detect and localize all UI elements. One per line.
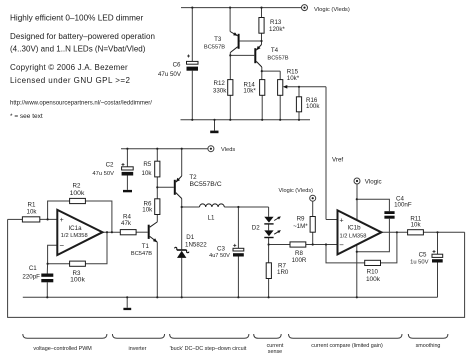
wire R2 right to output bbox=[86, 201, 112, 232]
junction C3 / ground rail bbox=[237, 296, 239, 298]
svg-text:Designed for battery–powered o: Designed for battery–powered operation bbox=[10, 32, 155, 41]
svg-text:−: − bbox=[339, 241, 344, 250]
svg-text:100k: 100k bbox=[70, 190, 85, 197]
resistor R3 bbox=[70, 261, 86, 283]
wire R12 bottom bbox=[229, 95, 231, 120]
node Vleds bbox=[208, 146, 235, 153]
brace current sense bbox=[254, 334, 282, 338]
diode D1 1N5822 schottky bbox=[175, 234, 208, 258]
wire T4 collector junction bbox=[261, 67, 263, 80]
wire IC1b V- pin to ground bbox=[356, 245, 358, 297]
wire C4 top link bbox=[357, 199, 390, 211]
svg-text:+: + bbox=[60, 217, 64, 224]
potentiometer R15 bbox=[278, 68, 300, 95]
svg-text:C1: C1 bbox=[29, 265, 37, 272]
brace smoothing bbox=[408, 334, 448, 338]
wire T2 collector to L1 node bbox=[181, 199, 183, 208]
junction R15 / upper ground rail bbox=[279, 119, 281, 121]
svg-text:47u 50V: 47u 50V bbox=[92, 171, 114, 177]
wire R4 to T1 base bbox=[136, 231, 148, 233]
wire R13 bottom / node T3 base / T4 emitter bbox=[261, 33, 263, 44]
op-amp IC1b bbox=[338, 210, 382, 254]
resistor R16 bbox=[296, 97, 320, 112]
junction feedback / minus input net bbox=[325, 243, 327, 245]
svg-text:smoothing: smoothing bbox=[416, 343, 441, 349]
svg-text:1u 50V: 1u 50V bbox=[410, 260, 429, 266]
svg-text:T4: T4 bbox=[271, 47, 279, 54]
wire C5 bottom / ground rail right end bbox=[437, 263, 439, 298]
junction R7 / ground rail bbox=[268, 296, 270, 298]
svg-text:sense: sense bbox=[268, 349, 282, 355]
svg-text:330k: 330k bbox=[213, 88, 227, 95]
junction T4 collector / R14 / R15 bbox=[261, 70, 263, 72]
capacitor C5 bbox=[410, 250, 443, 266]
wire top Vlogic rail bbox=[181, 7, 302, 9]
svg-text:Highly efficient 0–100% LED di: Highly efficient 0–100% LED dimmer bbox=[10, 13, 143, 22]
svg-text:100R: 100R bbox=[292, 257, 307, 264]
svg-text:T1: T1 bbox=[142, 243, 150, 250]
junction C1 / ground rail bbox=[46, 296, 48, 298]
wire upper ground rail bbox=[181, 119, 311, 121]
svg-text:100nF: 100nF bbox=[394, 201, 412, 208]
resistor R4 bbox=[120, 214, 136, 235]
wire sense node to R8 bbox=[269, 244, 290, 246]
node Vlogic (Vleds) mid bbox=[279, 188, 316, 201]
wire IC1a output to R4 bbox=[102, 231, 120, 233]
junction T3 emitter / Vlogic rail bbox=[229, 7, 231, 9]
wire C6 branch top bbox=[191, 8, 193, 62]
svg-text:10k*: 10k* bbox=[243, 87, 256, 94]
junction ground symbol / ground rail bbox=[126, 296, 128, 298]
resistor R2 bbox=[70, 183, 86, 204]
wire T2 emitter to Vleds rail bbox=[181, 149, 183, 176]
transistor T4 bbox=[230, 45, 288, 68]
wire D2 top branch bbox=[268, 207, 270, 217]
node Vlogic (Vleds) top bbox=[302, 5, 350, 13]
svg-text:BC557B/C: BC557B/C bbox=[190, 181, 222, 188]
svg-text:1/2 LM358: 1/2 LM358 bbox=[340, 233, 367, 239]
junction C2 / Vleds rail bbox=[126, 148, 128, 150]
junction T2 collector / D1 / L1 bbox=[181, 206, 183, 208]
wire D2 middle bbox=[268, 224, 270, 230]
svg-text:C6: C6 bbox=[173, 62, 181, 69]
resistor R10 bbox=[365, 260, 381, 283]
wire T1 collector to R6 bbox=[156, 215, 158, 222]
inductor L1 bbox=[200, 204, 225, 221]
junction R13 / Vlogic rail bbox=[260, 7, 262, 9]
wire R1 right to plus input bbox=[40, 218, 58, 220]
junction R3 / IC1a output bbox=[106, 231, 108, 233]
wire minus input to R3/C1 node bbox=[48, 245, 58, 263]
capacitor C2 bbox=[92, 162, 133, 178]
junction C4 / Vlogic pin wire bbox=[356, 198, 358, 200]
svg-text:C2: C2 bbox=[106, 162, 114, 169]
junction C4 / IC1b V- pin wire bbox=[356, 251, 358, 253]
ground bar below C2 bbox=[123, 190, 132, 192]
svg-text:100k: 100k bbox=[306, 103, 320, 110]
svg-text:D2: D2 bbox=[252, 225, 260, 232]
svg-text:(4..30V) and 1..N LEDs (N=Vbat: (4..30V) and 1..N LEDs (N=Vbat/Vled) bbox=[10, 45, 146, 54]
wire main ground rail bbox=[23, 296, 438, 298]
resistor R11 bbox=[408, 215, 424, 235]
op-amp IC1a bbox=[57, 210, 102, 255]
wire R2 branch from plus input bbox=[48, 201, 70, 219]
capacitor C1 bbox=[22, 265, 53, 283]
svg-text:BC557B: BC557B bbox=[267, 56, 288, 62]
wire Vref vertical bbox=[325, 87, 327, 220]
junction R5 / Vleds rail bbox=[156, 148, 158, 150]
wire C6 bottom to ground rail bbox=[191, 71, 193, 120]
svg-text:47k: 47k bbox=[121, 220, 132, 227]
wire R8 right to IC1b minus input bbox=[306, 244, 338, 246]
wire C2 bottom bbox=[126, 175, 128, 190]
resistor R13 bbox=[259, 18, 286, 34]
wire outer feedback loop R11 to R1 bbox=[8, 219, 465, 317]
wire R15 bottom bbox=[279, 95, 281, 120]
capacitor C6 bbox=[158, 55, 198, 79]
svg-text:R10: R10 bbox=[367, 269, 379, 276]
svg-text:current: current bbox=[267, 343, 284, 349]
junction R15 wiper / R16 bbox=[298, 86, 300, 88]
svg-text:R1: R1 bbox=[28, 201, 36, 208]
junction R2 / IC1a output bbox=[111, 231, 113, 233]
svg-text:Vlogic (Vleds): Vlogic (Vleds) bbox=[279, 188, 314, 194]
svg-text:Vleds: Vleds bbox=[221, 147, 235, 153]
svg-text:Vlogic: Vlogic bbox=[365, 178, 382, 185]
wire R3 right to output bbox=[86, 232, 108, 264]
resistor R1 bbox=[22, 201, 39, 222]
junction T3 base / R13 / T4 emitter bbox=[260, 40, 262, 42]
svg-text:T2: T2 bbox=[189, 174, 197, 181]
wire L1 left node bbox=[182, 206, 200, 208]
wire C5 top bbox=[437, 232, 439, 254]
svg-text:10k*: 10k* bbox=[287, 75, 300, 82]
svg-text:http://www.opensourcepartners.: http://www.opensourcepartners.nl/~costar… bbox=[10, 100, 152, 106]
svg-text:C5: C5 bbox=[419, 251, 427, 258]
svg-text:R5: R5 bbox=[143, 161, 151, 168]
junction C5 / R11 output bbox=[436, 231, 438, 233]
wire R16 bottom bbox=[298, 112, 300, 120]
svg-text:'buck' DC–DC step–down circuit: 'buck' DC–DC step–down circuit bbox=[170, 346, 247, 352]
wire C1 top bbox=[46, 264, 48, 274]
resistor R9 bbox=[293, 215, 315, 232]
wire D2 bottom to sense node bbox=[268, 238, 270, 245]
wire R7 bottom bbox=[268, 279, 270, 298]
svg-text:120k*: 120k* bbox=[269, 26, 285, 33]
junction R14 / upper ground rail bbox=[261, 119, 263, 121]
LED D2 (two series LEDs) bbox=[252, 216, 281, 238]
brace buck DC-DC step-down circuit bbox=[170, 334, 249, 338]
capacitor C4 bbox=[384, 195, 411, 218]
svg-text:Vref: Vref bbox=[332, 157, 343, 164]
junction R16 / upper ground rail bbox=[298, 119, 300, 121]
node Vlogic bbox=[354, 178, 382, 185]
svg-text:Vlogic (Vleds): Vlogic (Vleds) bbox=[314, 7, 350, 13]
svg-text:10k: 10k bbox=[411, 221, 422, 228]
svg-text:IC1a: IC1a bbox=[68, 225, 82, 232]
svg-text:10k: 10k bbox=[142, 207, 153, 214]
svg-text:4u7 50V: 4u7 50V bbox=[209, 253, 230, 259]
svg-text:D1: D1 bbox=[186, 234, 194, 241]
junction D2 / R7 / R8 sense node bbox=[268, 243, 270, 245]
svg-text:R12: R12 bbox=[214, 80, 226, 87]
resistor R12 bbox=[213, 80, 233, 96]
wire R11 right to outer loop bbox=[423, 231, 464, 233]
transistor T3 bbox=[204, 32, 262, 53]
svg-text:100k: 100k bbox=[366, 276, 381, 283]
wire R3 left bbox=[48, 263, 70, 265]
wire C3 top bbox=[237, 207, 239, 248]
junction T4 base / T3 collector bbox=[229, 54, 231, 56]
wire T3 collector to R12 bbox=[229, 53, 231, 80]
junction C3 / L1 output bbox=[237, 206, 239, 208]
brace inverter bbox=[112, 334, 164, 338]
svg-text:−: − bbox=[59, 241, 64, 250]
junction R12 / upper ground rail bbox=[229, 119, 231, 121]
wire Vleds rail bbox=[121, 148, 208, 150]
svg-text:~1M*: ~1M* bbox=[293, 223, 308, 230]
junction T2 emitter / Vleds rail bbox=[181, 148, 183, 150]
resistor R5 bbox=[142, 161, 160, 177]
title text block bbox=[10, 13, 155, 120]
wire feedback to R10 bbox=[326, 245, 365, 263]
brace current compare (limited gain) bbox=[289, 334, 403, 338]
wire C1 bottom bbox=[46, 282, 48, 297]
svg-text:C3: C3 bbox=[217, 246, 225, 253]
wire C2 top bbox=[126, 149, 128, 168]
wire C4 bottom to V- pin bbox=[357, 219, 390, 252]
junction R5 / R6 / T2 base bbox=[156, 186, 158, 188]
resistor R8 bbox=[290, 242, 307, 264]
svg-text:220pF: 220pF bbox=[22, 273, 40, 280]
junction C6 / upper ground rail bbox=[191, 119, 193, 121]
svg-text:R2: R2 bbox=[73, 183, 81, 190]
svg-text:L1: L1 bbox=[208, 214, 215, 221]
wire R14 bottom bbox=[261, 95, 263, 120]
svg-text:IC1b: IC1b bbox=[347, 225, 361, 232]
junction D1 / ground rail bbox=[181, 296, 183, 298]
svg-text:BC557B: BC557B bbox=[204, 45, 225, 51]
wire R5-R6-T2 base node bbox=[156, 177, 158, 199]
svg-text:T3: T3 bbox=[214, 36, 222, 43]
junction R9 / minus input net bbox=[312, 243, 314, 245]
svg-text:1R0: 1R0 bbox=[277, 269, 289, 276]
svg-text:Copyright © 2006 J.A. Bezemer: Copyright © 2006 J.A. Bezemer bbox=[10, 63, 128, 72]
wire C3 bottom bbox=[237, 257, 239, 298]
junction ground symbol / upper ground rail bbox=[213, 119, 215, 121]
transistor T1 bbox=[131, 222, 157, 257]
wire IC1b plus input bbox=[326, 219, 338, 221]
wire R5 top bbox=[156, 149, 158, 162]
junction T1 emitter / ground rail bbox=[156, 296, 158, 298]
wire R1 left bbox=[8, 218, 23, 220]
wire R16 top bbox=[298, 87, 300, 97]
wire R15 wiper to Vref bbox=[287, 86, 327, 88]
svg-text:Licensed under GNU GPL >=2: Licensed under GNU GPL >=2 bbox=[10, 76, 130, 85]
wire R15 top bbox=[279, 71, 281, 80]
ground lower bbox=[123, 297, 131, 310]
resistor R6 bbox=[142, 199, 160, 215]
svg-text:inverter: inverter bbox=[129, 346, 147, 352]
junction C6 / Vlogic rail bbox=[191, 7, 193, 9]
wire R7 top bbox=[268, 245, 270, 263]
brace voltage-controlled PWM bbox=[23, 334, 107, 338]
wire D1 bottom bbox=[181, 258, 183, 298]
svg-text:1N5822: 1N5822 bbox=[185, 242, 207, 249]
junction R1 / R2 / IC1a plus input bbox=[47, 218, 49, 220]
wire T3 emitter branch bbox=[229, 8, 231, 32]
transistor T2 bbox=[174, 174, 222, 199]
junction R3 / C1 / IC1a minus input bbox=[47, 263, 49, 265]
svg-text:1/2 LM358: 1/2 LM358 bbox=[61, 233, 88, 239]
wire R9 top from Vlogic(Vleds) node bbox=[312, 201, 314, 216]
svg-text:100k: 100k bbox=[70, 277, 85, 284]
svg-text:R9: R9 bbox=[297, 215, 305, 222]
wire R9 bottom bbox=[312, 232, 314, 244]
wire T1 emitter to ground rail bbox=[156, 242, 158, 297]
capacitor C3 bbox=[209, 244, 244, 259]
svg-text:10k: 10k bbox=[27, 209, 38, 216]
wire R13 top bbox=[261, 8, 263, 18]
wire R10 right to output bbox=[380, 232, 397, 263]
resistor R7 bbox=[266, 263, 289, 279]
wire IC1b V+ pin from Vlogic node bbox=[356, 184, 358, 220]
svg-text:BC547B: BC547B bbox=[131, 251, 152, 257]
resistor R14 bbox=[243, 80, 264, 96]
svg-text:current compare (limited gain): current compare (limited gain) bbox=[311, 343, 383, 349]
svg-text:voltage–controlled PWM: voltage–controlled PWM bbox=[33, 346, 92, 352]
wire D1 top bbox=[181, 207, 183, 249]
svg-text:+: + bbox=[339, 217, 343, 224]
wire L1 right to D2 corner bbox=[224, 206, 268, 208]
wire IC1b output to R11 bbox=[381, 231, 407, 233]
svg-text:10k: 10k bbox=[142, 170, 153, 177]
ground upper bbox=[210, 120, 218, 133]
junction IC1b V- / ground rail bbox=[356, 296, 358, 298]
svg-text:47u 50V: 47u 50V bbox=[158, 71, 182, 78]
svg-text:* = see text: * = see text bbox=[10, 113, 43, 120]
junction R10 / IC1b output bbox=[396, 231, 398, 233]
